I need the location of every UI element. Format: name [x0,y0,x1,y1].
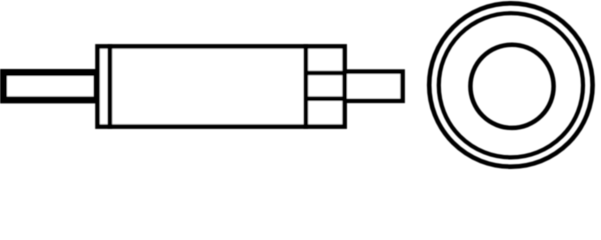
hex section [306,46,345,126]
body [110,46,306,126]
middle circle (end view) [439,13,583,157]
hex flat line top [306,71,345,76]
inner circle (end view) [470,45,553,128]
right stub [345,72,403,101]
outer circle (end view) [429,3,592,166]
left shaft [4,73,98,100]
hex flat line bottom [306,96,345,101]
flange [98,46,110,126]
